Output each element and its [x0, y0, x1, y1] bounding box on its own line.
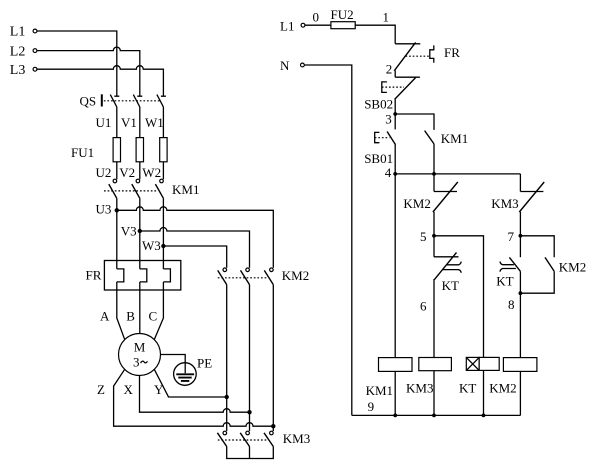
svg-text:8: 8: [508, 297, 515, 312]
node 7: [508, 229, 523, 244]
svg-text:L3: L3: [10, 63, 26, 78]
svg-text:L1: L1: [10, 25, 26, 40]
wire L1 to QS pole A: [37, 31, 117, 96]
node labels U2 V2 W2: [96, 165, 162, 180]
svg-text:KM3: KM3: [406, 380, 433, 395]
svg-text:U2: U2: [96, 165, 112, 180]
ground PE: [174, 356, 213, 386]
svg-text:FU1: FU1: [71, 145, 94, 160]
pushbutton SB01 (NO start): [364, 114, 395, 166]
node 4: [385, 165, 436, 180]
svg-text:N: N: [280, 58, 290, 73]
node 3: [385, 112, 397, 127]
svg-text:X: X: [124, 382, 134, 397]
node L1 terminal (control): [280, 18, 305, 33]
svg-text:Z: Z: [97, 382, 105, 397]
svg-text:W2: W2: [142, 165, 161, 180]
contactor KM3 main contacts (3-pole, star point): [217, 431, 310, 447]
wire node8 to KM2 coil: [519, 293, 521, 357]
wire node3 to KM1 aux: [395, 114, 434, 130]
svg-text:FR: FR: [444, 45, 460, 60]
contact FR (NC, thermal relay): [394, 42, 460, 70]
node 9 / bottom bus: [352, 399, 521, 415]
fuse FU1 (3 cartridges): [71, 138, 167, 180]
svg-text:QS: QS: [80, 93, 97, 108]
node V3: [121, 224, 142, 239]
node KT-bus: [482, 414, 486, 418]
node U3: [96, 202, 120, 217]
wire L1 to FU2: [305, 24, 331, 26]
contact KT (NC delayed opening): [434, 236, 461, 293]
svg-text:KM2: KM2: [489, 380, 516, 395]
node labels U1 V1 W1: [96, 115, 164, 130]
svg-text:5: 5: [420, 229, 427, 244]
node Y junction: [225, 395, 229, 399]
svg-text:A: A: [100, 309, 110, 324]
node labels A B C: [100, 309, 157, 324]
node L1 terminal: [10, 25, 37, 40]
svg-text:6: 6: [420, 298, 427, 313]
svg-text:KT: KT: [442, 278, 459, 293]
svg-text:M: M: [134, 340, 146, 355]
switch QS (3-pole knife switch): [80, 93, 166, 108]
contactor KM1 main contacts (3-pole): [104, 179, 199, 198]
svg-text:7: 7: [508, 229, 515, 244]
wire node5 to KT coil: [434, 236, 484, 358]
wire node4 to KM1 coil: [394, 174, 396, 358]
svg-text:L2: L2: [10, 44, 26, 59]
wire KM1 aux to node 4: [433, 144, 435, 174]
svg-text:V3: V3: [121, 224, 137, 239]
svg-text:KM3: KM3: [491, 196, 518, 211]
svg-text:3: 3: [133, 354, 140, 369]
wire KT coil to bus: [483, 370, 485, 415]
motor M 3~: [119, 334, 161, 376]
coil KM1: [366, 358, 412, 398]
svg-text:KM1: KM1: [172, 182, 199, 197]
svg-text:KM1: KM1: [441, 131, 468, 146]
wire KM1 coil to bus: [394, 371, 396, 415]
svg-text:0: 0: [313, 10, 320, 25]
wire KM3 NC to node 7: [519, 212, 521, 236]
coil KM2: [489, 358, 537, 396]
svg-text:V1: V1: [121, 115, 137, 130]
svg-text:KM1: KM1: [366, 383, 393, 398]
svg-text:U1: U1: [96, 115, 112, 130]
wire KM2 NC to node 5: [433, 212, 435, 236]
svg-text:9: 9: [368, 399, 375, 414]
wire motor to PE: [161, 355, 186, 374]
node KM3-bus: [432, 414, 436, 418]
pushbutton SB02 (NC stop): [364, 77, 420, 112]
wire FU2 to FR contact: [355, 25, 395, 44]
node N terminal: [280, 58, 304, 73]
svg-text:SB01: SB01: [364, 151, 393, 166]
svg-text:3: 3: [385, 112, 392, 127]
svg-text:V2: V2: [119, 165, 135, 180]
svg-text:FR: FR: [86, 268, 102, 283]
svg-text:FU2: FU2: [331, 7, 354, 22]
svg-text:C: C: [149, 309, 158, 324]
svg-text:U3: U3: [96, 202, 112, 217]
svg-text:KT: KT: [459, 380, 476, 395]
wire KM3 coil to bus: [433, 371, 435, 416]
node L2 terminal: [10, 44, 37, 59]
svg-text:W3: W3: [142, 238, 161, 253]
node 8: [508, 291, 522, 311]
wire FR to SB02: [394, 70, 396, 77]
node X junction: [247, 410, 251, 414]
wire Y to KM2 pole1 drop: [154, 369, 227, 397]
contactor KM2 main contacts (3-pole): [218, 268, 310, 285]
svg-text:KM2: KM2: [403, 196, 430, 211]
wire N to bottom bus: [304, 65, 351, 415]
svg-text:2: 2: [386, 61, 393, 76]
contact KM2 (NC interlock): [403, 174, 457, 212]
svg-text:SB02: SB02: [364, 97, 393, 112]
node W3: [142, 238, 166, 253]
svg-text:KM3: KM3: [283, 431, 310, 446]
node labels Z X Y: [97, 382, 164, 397]
wire SB02 to node 3: [394, 99, 396, 114]
contact KT (NO delayed closing): [496, 236, 520, 289]
wire X to KM2 pole2 drop (hop over pole1): [140, 376, 250, 413]
wire V3 to KM2 pole 2 (hop over W drop): [140, 228, 250, 268]
wire U3 to KM2 pole 3 (hops over V,W drops): [117, 207, 273, 268]
thermal relay FR (heater box): [86, 261, 181, 291]
node KM1-bus: [393, 414, 397, 418]
wire FR to motor terminals: [117, 282, 164, 340]
wire KT NO to node 8: [519, 271, 521, 293]
wire KM2 coil to bus: [519, 371, 521, 415]
svg-text:B: B: [126, 309, 135, 324]
svg-text:KM2: KM2: [559, 259, 586, 274]
wire KM3 star bridge: [227, 447, 274, 459]
wire Z to KM2 pole3 drop (hops over pole1,2): [114, 369, 274, 426]
contact KM3 (NC interlock): [491, 174, 544, 212]
wire W3 to KM2 pole 1: [163, 246, 226, 268]
coil KT (time relay): [459, 357, 499, 395]
svg-text:W1: W1: [145, 115, 164, 130]
wire KT NC to KM3 coil: [433, 279, 435, 358]
wire node4 bus: [395, 173, 520, 175]
svg-text:KM2: KM2: [282, 268, 309, 283]
svg-text:PE: PE: [197, 356, 212, 371]
wire L3 to QS pole C (hops over L1,L2 drops): [37, 66, 163, 96]
wire KM2 poles down to KM3: [227, 285, 274, 431]
svg-text:1: 1: [383, 10, 390, 25]
node 5: [420, 229, 436, 244]
wire L2 to QS pole B (hop over L1 drop): [37, 47, 140, 96]
contact KM1 (NO aux, self holding): [425, 131, 469, 146]
coil KM3: [406, 358, 451, 396]
wire SB01 to node 4: [394, 144, 396, 174]
wire KM1 to FR: [117, 198, 164, 269]
contact KM2 (NO aux, parallel): [520, 236, 586, 293]
fuse FU2: [331, 7, 356, 29]
wire QS to FU1: [117, 107, 164, 138]
svg-text:4: 4: [385, 165, 392, 180]
node L3 terminal: [10, 63, 37, 78]
node Z junction: [271, 424, 275, 428]
svg-text:L1: L1: [280, 18, 294, 33]
svg-text:KT: KT: [496, 274, 513, 289]
